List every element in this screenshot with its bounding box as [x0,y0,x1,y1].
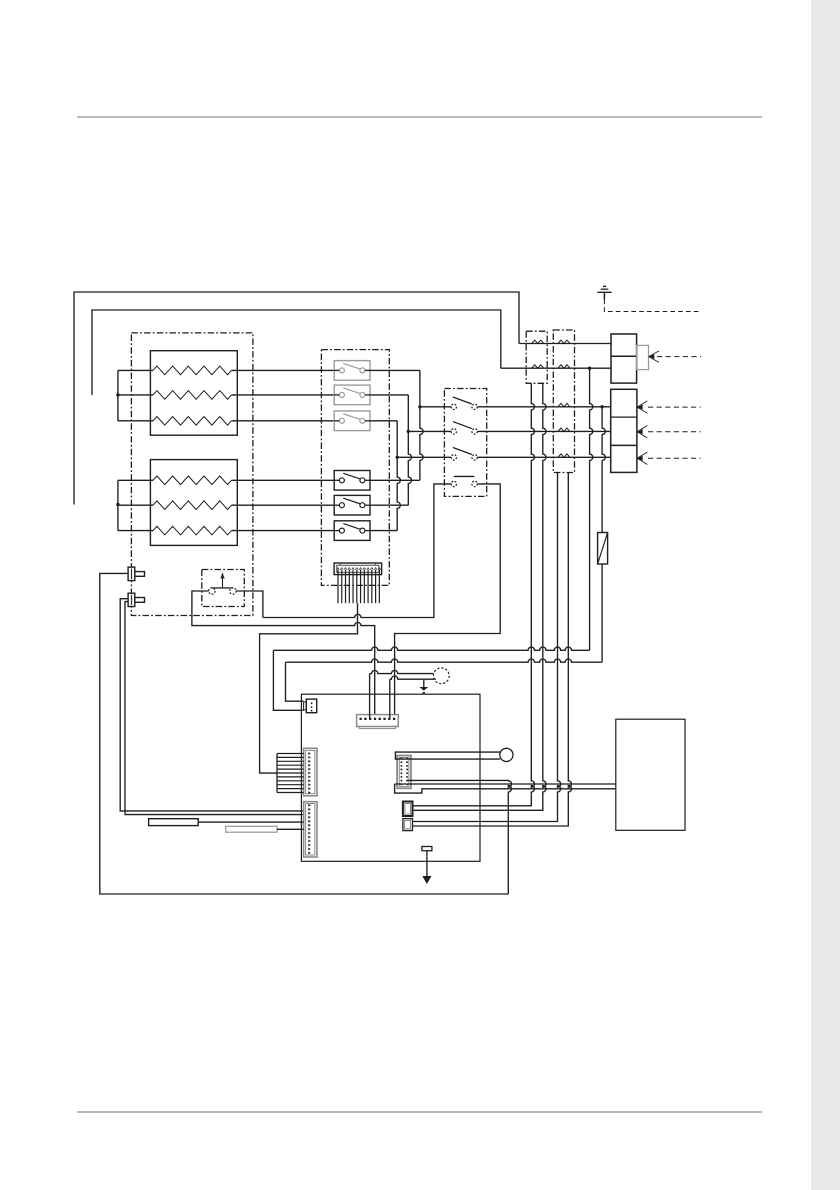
thermal element F1 row2 [532,365,544,368]
wire relay K5 inner right [365,504,370,506]
wire phase C to contactor [397,456,451,458]
wire L2 tap to PCB supply [273,368,592,710]
arrow into X3 terminal 3 [637,452,648,464]
wire contactor pole3 to terminal L3 [477,456,610,458]
wire L1 tap to PCB supply [286,407,606,701]
wire relay K5 inner left [334,504,339,506]
wire F2 output a [413,473,561,822]
wire CN5 to H1 lower [401,758,500,760]
arrow into X3 terminal 2 [637,426,648,438]
wire bank2 row6 lead-in [118,530,153,532]
wire ribbon common drop [260,603,358,773]
wire top loop L2 (heater bank1 common to thermal box row2) [92,310,501,395]
wire relay K6 inner left [334,530,339,532]
wire relay K4 inner right [365,479,370,481]
wire relay K1 inner left [334,369,339,371]
PCB earth link [422,847,432,885]
contactor main contact 2 [451,422,477,434]
wire M1 feed lower [390,676,436,719]
heating element R2b [153,501,232,510]
thermal element F2 row5 [558,454,570,457]
wire thermostat right to contactor aux [236,484,451,618]
wire CN5 jog to external box b [395,784,616,793]
wire top loop L1 (heater bank2 common to thermal box row1) [74,292,519,505]
wire CN5 to external box a [395,783,616,785]
PCB connector CN6 body [403,802,413,817]
wire bank1 row2 to relay [232,394,340,396]
heater assembly boundary box (dash-dot) [131,333,253,616]
wire phase A to contactor [420,406,451,408]
indicator lamp H1 [500,748,513,761]
PCB connector CN5 pins [400,758,408,786]
junction dot phase B [407,430,410,433]
thermostat contact left [209,588,215,594]
PCB connector CN2 body [304,748,317,796]
thermal element F2 row3 [558,403,570,406]
PCB connector CN3 body [304,802,317,857]
relay contact K1 [334,361,370,381]
wire probe B2 lead a [120,599,303,811]
wire relay K2 inner left [334,394,339,396]
relay contact K5 [334,495,370,515]
ribbon connector X1 pin chevrons [337,568,381,570]
relay contact K4 [334,471,370,491]
dashed supply lead 3 [648,457,701,459]
contactor boundary box (dash-dot) [444,389,486,497]
external control box [616,719,685,830]
chassis ground at M1 [419,679,428,693]
wire bank1 row3 lead-in [118,420,153,422]
PCB connector CN3 pins [308,804,311,854]
contactor main contact 3 [451,448,477,460]
wire CN5 to H1 upper [395,752,500,759]
wire mains row2 [501,367,611,369]
thermostat contact bar [212,587,233,589]
thermostat trip arrow [222,578,224,589]
wire harness comb into CN2 [277,754,304,793]
earth symbol [598,286,612,299]
wire F1 output b [413,383,547,810]
control PCB outline [301,694,480,861]
thermal element F2 row1 [558,340,570,343]
wire phase join B vertical [408,395,411,505]
wire relay K4 inner left [334,479,339,481]
bus wire heater bank2 left [117,480,119,530]
wire F2 output b [413,473,572,827]
dashed supply lead 1 [648,406,701,408]
PCB connector CN7 body [403,819,413,831]
PCB connector CN4 body [357,715,399,729]
bus wire heater bank1 left [117,370,119,420]
right page margin band [811,0,840,1190]
wire relay K1 inner right [365,369,370,371]
wire thermostat left to PCB CN4 pin4 [192,591,375,719]
wire bank2 row4 lead-in [118,479,153,481]
wire probe B1 to loop [100,573,509,894]
thermostat contact right [230,588,236,594]
dashed supply lead 2 [648,431,701,433]
wire contactor aux right drop [395,484,501,719]
junction dot bank2 feed [116,503,119,506]
pump relay circle M1 [433,668,449,684]
relay module boundary box (dash-dot) [321,350,389,586]
thermal element F2 row2 [558,365,570,368]
heating element R2a [153,476,232,485]
thermal element F1 row1 [532,340,544,343]
heating element R2c [153,526,232,535]
wire relay K2 inner right [365,394,370,396]
dashed earth lead [604,300,701,312]
temperature probe B1 [128,567,144,581]
wire relay K6 output [370,530,397,532]
wire probe B2 lead b [125,602,304,815]
wire phase B to contactor [408,430,451,432]
wire phase join C vertical [397,421,400,531]
junction dot phase A [418,405,421,408]
wire relay K2 output [370,394,408,396]
wire bank1 row1 lead-in [118,369,153,371]
terminal X2 side tab [637,345,649,369]
terminal block X2 upper [611,334,637,383]
heating element R1a [153,366,232,375]
arrow into X3 terminal 1 [637,401,648,413]
flat sensor strip S2 [226,826,277,832]
wire bank1 row1 to relay [232,369,340,371]
wire bank2 row5 lead-in [118,504,153,506]
fuse F3 [598,533,608,565]
ribbon cable strands [338,570,379,604]
junction dot pole1 tap [600,405,603,408]
wire bank2 row6 to relay [232,530,340,532]
heating element R1c [153,417,232,426]
wire relay K3 inner left [334,420,339,422]
wire strip S2 to CN3 [277,828,304,830]
wire relay K1 output [370,369,420,371]
relay contact K3 [334,411,370,431]
PCB connector CN4 pins [360,718,396,720]
contactor auxiliary contact [451,476,477,486]
thermal cutout box F2 (dash-dot) [553,330,574,473]
wire relay K4 output [370,479,420,481]
dashed supply lead upper [657,356,701,358]
thermal cutout box F1 (dash-dot) [526,331,547,383]
thermal element F2 row4 [558,428,570,431]
wire M1 feed upper [370,670,434,719]
wire bank2 row4 to relay [232,479,340,481]
junction dot bank1 feed [116,393,119,396]
wire bank1 row3 to relay [232,420,340,422]
wire contactor pole2 to terminal L2 [477,430,610,432]
heating element bank 2 box [150,460,237,546]
safety thermostat box (dash-dot) [202,570,245,607]
wire F1 output a [413,383,535,806]
terminal block X3 lower [611,389,637,472]
wire relay K5 output [370,504,408,506]
PCB connector CN2 pins [308,752,311,794]
PCB connector CN5 body [397,756,411,789]
temperature probe B2 [128,593,144,606]
wire phase join A vertical [420,370,423,480]
relay contact K6 [334,521,370,541]
wire contactor pole1 to terminal L1 [477,406,610,408]
wire mains row1 [519,343,611,345]
flat sensor strip S1 [149,819,199,826]
wire bank1 row2 lead-in [118,394,153,396]
wire strip S1 to CN3 [198,821,303,823]
relay contact K2 [334,385,370,405]
wire bank2 row5 to relay [232,504,340,506]
relay module ribbon connector X1 [334,563,382,575]
wire relay K6 inner right [365,530,370,532]
arrow into X2 tab [649,351,660,363]
contactor main contact 1 [451,397,477,409]
heating element bank 1 box [150,351,237,436]
header rule [77,116,762,118]
wire relay K3 inner right [365,420,370,422]
heating element R1b [153,391,232,400]
junction dot phase C [396,456,399,459]
wire relay K3 output [370,420,397,422]
PCB connector CN1 body [304,699,317,713]
footer rule [77,1111,762,1113]
wire CN5 loop feed [407,780,511,894]
junction dot row2 tap [588,367,591,370]
